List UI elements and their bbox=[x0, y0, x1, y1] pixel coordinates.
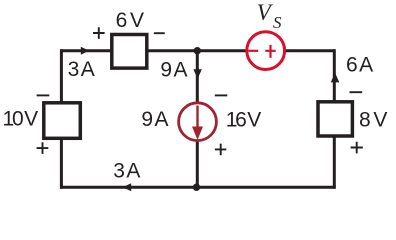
svg-text:6 V: 6 V bbox=[116, 9, 144, 32]
box 6 V bbox=[112, 35, 147, 69]
wire left bbox=[60, 49, 63, 189]
minus 10V bbox=[37, 94, 50, 96]
arrow 6 A right (up) bbox=[331, 73, 340, 83]
node bottom bbox=[193, 184, 200, 191]
plus 16V bbox=[215, 144, 226, 156]
wire top bbox=[60, 49, 336, 52]
minus 8V bbox=[350, 91, 363, 93]
plus 6V bbox=[93, 27, 105, 39]
svg-text:16 V: 16 V bbox=[226, 109, 262, 132]
arrow 9 A middle (down) bbox=[193, 69, 201, 79]
svg-text:9 A: 9 A bbox=[160, 59, 187, 82]
Vs plus bbox=[265, 45, 275, 58]
arrow 3 A bottom (left) bbox=[123, 183, 132, 191]
wire bottom bbox=[60, 186, 336, 189]
svg-text:3 A: 3 A bbox=[68, 58, 95, 81]
box 8 V bbox=[318, 102, 352, 136]
wire right bbox=[333, 49, 336, 189]
svg-text:S: S bbox=[273, 13, 282, 32]
Vs minus bbox=[248, 50, 258, 52]
plus 8V bbox=[351, 142, 363, 154]
source Vs circle bbox=[247, 32, 285, 70]
svg-text:10 V: 10 V bbox=[2, 108, 38, 131]
wire middle branch bbox=[196, 51, 199, 188]
plus 10V bbox=[37, 142, 49, 154]
svg-text:6 A: 6 A bbox=[346, 54, 373, 77]
svg-text:8 V: 8 V bbox=[359, 109, 387, 132]
current source arrow bbox=[196, 106, 198, 128]
svg-text:V: V bbox=[257, 0, 274, 25]
svg-text:3 A: 3 A bbox=[113, 160, 140, 183]
current source 9 A circle bbox=[179, 103, 217, 141]
box 10 V bbox=[44, 103, 81, 139]
svg-text:9 A: 9 A bbox=[141, 108, 168, 131]
minus 6V bbox=[154, 32, 165, 34]
minus 16V bbox=[215, 94, 228, 96]
node top bbox=[194, 47, 201, 54]
arrow 3 A top (right) bbox=[81, 47, 89, 55]
